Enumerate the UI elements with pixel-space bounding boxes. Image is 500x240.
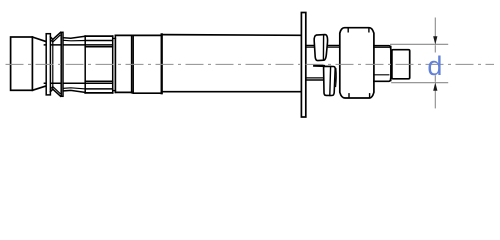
spring washer upper half: [314, 35, 327, 61]
extension line bottom: [391, 82, 448, 84]
nut facet line top left: [347, 28, 349, 32]
arrowhead bottom: [433, 82, 437, 90]
stud thread root top: [374, 46, 390, 48]
stud thread crest bottom: [374, 79, 391, 82]
dimension line top shaft: [434, 18, 436, 38]
nut facet line top right: [368, 28, 370, 32]
clip tooth inner line bottom: [50, 87, 60, 94]
cone core line bottom: [44, 82, 112, 84]
cone taper top: [32, 37, 45, 41]
thread core top between plate and nut: [306, 46, 340, 48]
clip tooth outline bottom: [50, 89, 60, 96]
dimension line bottom shaft: [434, 91, 436, 109]
spring washer mid bar: [314, 65, 324, 68]
hex nut: [340, 28, 374, 98]
stud thread crest top: [374, 46, 391, 49]
fixture plate: [301, 13, 305, 118]
stud thread root bottom: [374, 74, 389, 76]
shank top: [162, 34, 301, 37]
sleeve left edge: [84, 36, 86, 93]
stud end face: [390, 47, 392, 81]
spring washer upper inner line: [322, 35, 324, 61]
clip tooth outline top right: [63, 36, 85, 38]
nut facet line bottom left: [348, 94, 350, 98]
svg-text:d: d: [427, 51, 442, 81]
cone taper bottom: [32, 86, 45, 90]
sleeve outer top: [85, 35, 113, 37]
clip tab A: [46, 34, 50, 95]
shank bottom: [162, 91, 301, 93]
cone core line top: [44, 44, 112, 46]
neck segment: [133, 35, 161, 93]
nut facet line bottom right: [369, 94, 371, 98]
shank end face: [161, 34, 163, 93]
dimension line bottom tick above: [434, 75, 436, 82]
collar groove line: [132, 35, 134, 92]
spring washer lower outer arc: [335, 69, 338, 87]
clip tab B: [61, 32, 63, 96]
dimension line top tick below: [434, 45, 436, 52]
clip tooth inner line top: [50, 35, 60, 42]
clip tooth outline top: [50, 32, 60, 39]
thread core bottom between plate and washer: [306, 79, 324, 81]
spring washer lower half: [324, 66, 336, 95]
sleeve outer bottom: [85, 92, 113, 94]
sleeve inner bottom: [85, 88, 113, 90]
anchor cone base: [11, 37, 33, 90]
arrowhead top: [433, 36, 437, 44]
thread crest bottom between plate and washer: [306, 77, 324, 79]
groove ring: [113, 38, 116, 90]
clip tooth inner line bottom right: [63, 88, 85, 89]
centerline: [6, 63, 495, 65]
spring washer lower inner line: [329, 67, 332, 96]
clip tooth outline bottom right: [63, 90, 85, 92]
extension line top: [390, 43, 448, 45]
bolt tip: [392, 50, 410, 79]
clip tooth inner line top right: [63, 39, 85, 42]
sleeve inner top: [85, 40, 113, 42]
thread crest top between plate and nut: [306, 44, 340, 46]
sleeve band line top: [85, 46, 113, 48]
clip tooth vertical: [52, 39, 54, 89]
sleeve right edge: [112, 36, 114, 93]
sleeve band line bottom: [85, 80, 113, 82]
collar ring 1: [115, 35, 131, 92]
